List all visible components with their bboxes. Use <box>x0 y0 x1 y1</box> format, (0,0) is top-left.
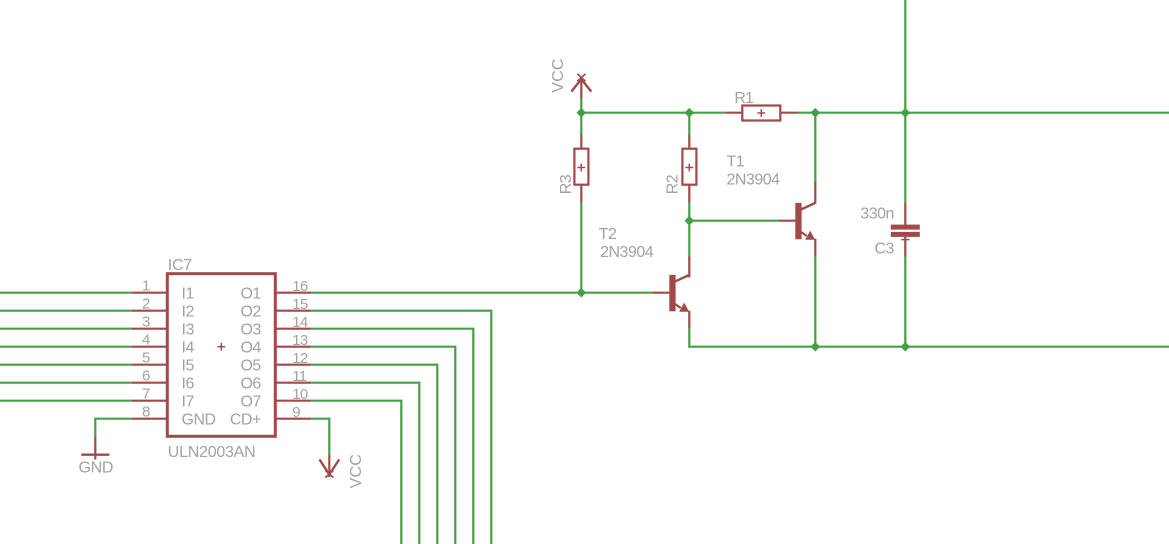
svg-text:14: 14 <box>292 314 308 331</box>
resistor R2 pins <box>688 113 690 221</box>
wire output pin 14 <box>311 329 473 544</box>
wire top rail VCC net <box>581 112 725 114</box>
wire input 6 to left edge <box>0 382 131 384</box>
pin 16 stub (right) <box>275 292 311 294</box>
gnd pin (red) <box>94 437 96 460</box>
svg-text:2N3904: 2N3904 <box>600 244 654 261</box>
svg-text:11: 11 <box>292 368 306 385</box>
wire output pin 10 <box>311 401 401 544</box>
ground symbol GND <box>81 454 109 456</box>
svg-text:3: 3 <box>142 314 150 331</box>
svg-text:2N3904: 2N3904 <box>727 171 781 188</box>
pin 11 stub (right) <box>275 382 311 384</box>
transistor T1 2N3904 <box>795 113 815 347</box>
supply VCC symbol top (arrow up) <box>571 74 591 113</box>
svg-text:6: 6 <box>142 368 150 385</box>
wire T2 emitter to bottom rail <box>689 329 815 347</box>
svg-text:O5: O5 <box>240 358 261 375</box>
junction T1 collector on top rail <box>810 108 820 118</box>
junction C3 top on top rail <box>900 108 910 118</box>
svg-text:O6: O6 <box>240 376 261 393</box>
pin 7 stub (left) <box>131 400 167 402</box>
pin 3 stub (left) <box>131 328 167 330</box>
svg-text:O1: O1 <box>240 286 261 303</box>
resistor R3 pins <box>580 113 582 293</box>
pin 10 stub (right) <box>275 400 311 402</box>
wire pin16 to T2 base net <box>311 292 652 294</box>
pin 12 stub (right) <box>275 364 311 366</box>
svg-text:O3: O3 <box>240 322 261 339</box>
wire bottom rail <box>815 346 1169 348</box>
wire output pin 12 <box>311 365 437 544</box>
pin 2 stub (left) <box>131 310 167 312</box>
svg-text:1: 1 <box>142 278 150 295</box>
wire pin9 to VCC <box>311 419 329 455</box>
pin T1 base (red) <box>778 220 795 222</box>
svg-text:R1: R1 <box>734 90 754 107</box>
svg-text:O4: O4 <box>240 340 261 357</box>
svg-text:O2: O2 <box>240 304 261 321</box>
supply VCC symbol bottom (arrow down) <box>319 455 339 478</box>
svg-text:9: 9 <box>292 404 300 421</box>
svg-text:T2: T2 <box>599 226 617 243</box>
resistor R3 body <box>574 149 588 185</box>
svg-text:R2: R2 <box>664 174 681 194</box>
svg-text:CD+: CD+ <box>230 412 261 429</box>
svg-text:I4: I4 <box>182 340 195 357</box>
svg-text:I5: I5 <box>182 358 195 375</box>
wire input 4 to left edge <box>0 346 131 348</box>
svg-text:16: 16 <box>292 278 308 295</box>
svg-text:I6: I6 <box>182 376 195 393</box>
svg-text:I2: I2 <box>182 304 195 321</box>
svg-text:R3: R3 <box>558 174 575 194</box>
junction R2 top on top rail <box>684 108 694 118</box>
pin 6 stub (left) <box>131 382 167 384</box>
pin 1 stub (left) <box>131 292 167 294</box>
svg-text:GND: GND <box>79 460 114 477</box>
svg-text:12: 12 <box>292 350 308 367</box>
IC U1 box ULN2003AN <box>167 274 275 437</box>
svg-text:10: 10 <box>292 386 308 403</box>
svg-text:I7: I7 <box>182 394 195 411</box>
junction R3 bottom / pin16 net <box>576 288 586 298</box>
junction C3 bottom on bottom rail <box>900 342 910 352</box>
svg-text:4: 4 <box>142 332 150 349</box>
svg-text:330n: 330n <box>860 206 894 223</box>
capacitor C3 plates <box>891 225 920 237</box>
svg-text:ULN2003AN: ULN2003AN <box>168 444 256 461</box>
transistor T2 2N3904 <box>669 221 689 329</box>
junction T1 emitter on bottom rail <box>810 342 820 352</box>
svg-text:T1: T1 <box>727 153 745 170</box>
svg-text:C3: C3 <box>874 240 894 257</box>
svg-text:GND: GND <box>182 412 216 429</box>
resistor R1 body <box>742 106 780 121</box>
pin 5 stub (left) <box>131 364 167 366</box>
svg-text:I3: I3 <box>182 322 195 339</box>
wire input 3 to left edge <box>0 328 131 330</box>
svg-text:7: 7 <box>142 386 150 403</box>
wire input 7 to left edge <box>0 400 131 402</box>
resistor R1 pins <box>725 112 797 114</box>
wire pin8 to GND <box>95 419 131 437</box>
svg-text:2: 2 <box>142 296 150 313</box>
junction R2 bottom / T1 base <box>684 216 694 226</box>
pin T2 base (red) <box>652 292 669 294</box>
wire input 5 to left edge <box>0 364 131 366</box>
wire output pin 11 <box>311 383 419 544</box>
wire C3 column vertical from top edge <box>904 0 906 203</box>
wire input 2 to left edge <box>0 310 131 312</box>
pin 4 stub (left) <box>131 346 167 348</box>
wire R2 bottom to T1 base <box>689 220 778 222</box>
capacitor C3 pins <box>901 203 909 347</box>
pin 13 stub (right) <box>275 346 311 348</box>
svg-text:15: 15 <box>292 296 308 313</box>
svg-text:IC7: IC7 <box>168 257 192 274</box>
wire output pin 13 <box>311 347 455 544</box>
svg-text:5: 5 <box>142 350 150 367</box>
svg-text:8: 8 <box>142 404 150 421</box>
pin 9 stub (right) <box>275 418 311 420</box>
wire output pin 15 <box>311 311 491 544</box>
svg-text:VCC: VCC <box>550 58 567 92</box>
junction VCC/R3 on top rail <box>576 108 586 118</box>
wire input 1 to left edge <box>0 292 131 294</box>
svg-text:O7: O7 <box>240 394 261 411</box>
pin 15 stub (right) <box>275 310 311 312</box>
resistor R2 body <box>682 149 696 185</box>
IC center + mark <box>217 343 225 351</box>
svg-text:13: 13 <box>292 332 308 349</box>
svg-text:VCC: VCC <box>348 454 365 488</box>
svg-text:I1: I1 <box>182 286 195 303</box>
pin 8 stub (left) <box>131 418 167 420</box>
pin 14 stub (right) <box>275 328 311 330</box>
